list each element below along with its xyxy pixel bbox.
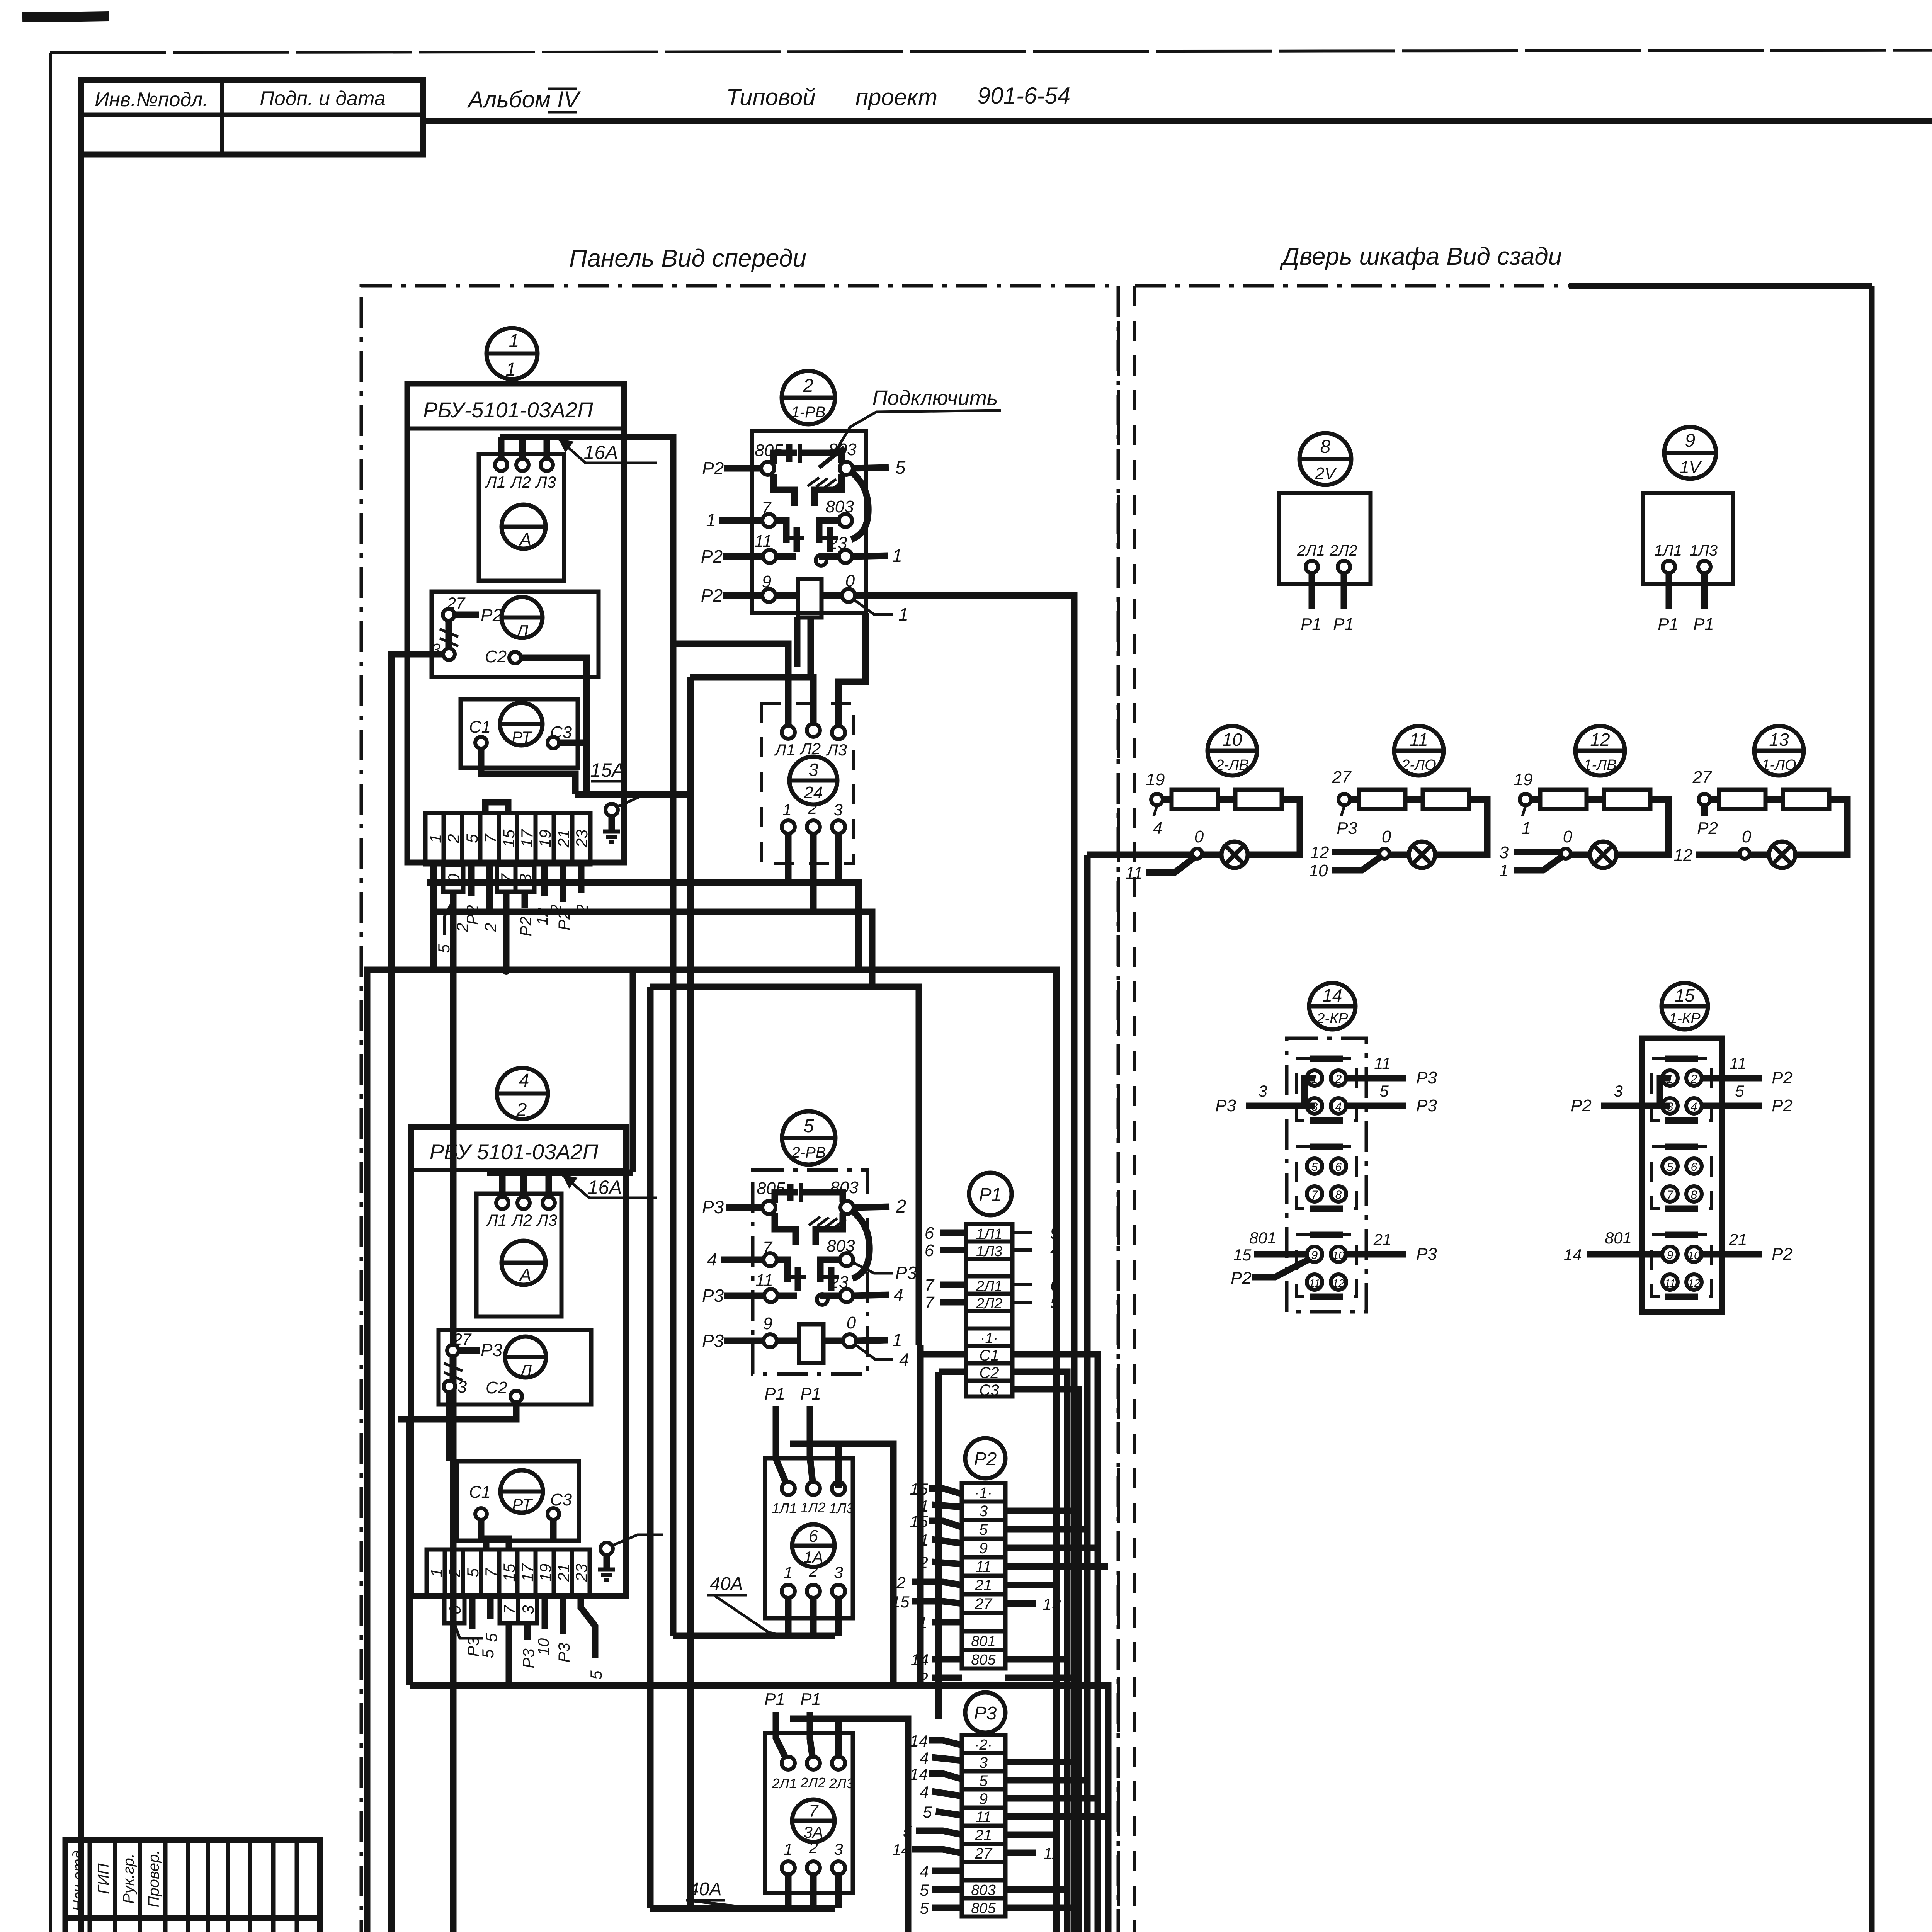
- svg-text:Р3: Р3: [555, 1643, 573, 1662]
- svg-text:Дверь шкафа Вид сзади: Дверь шкафа Вид сзади: [1280, 242, 1562, 270]
- designator circle Р1: [969, 1173, 1012, 1215]
- svg-text:4: 4: [920, 1783, 929, 1801]
- wire from pin 0 of 1-РВ to riser: [855, 595, 1074, 1932]
- svg-text:5: 5: [1311, 1161, 1318, 1173]
- svg-text:3: 3: [979, 1503, 988, 1520]
- sheet left edge: [49, 53, 52, 1932]
- svg-text:5: 5: [979, 1772, 988, 1789]
- svg-text:РБУ 5101-03А2П: РБУ 5101-03А2П: [430, 1139, 599, 1164]
- cabinet door edge: [1869, 286, 1875, 1932]
- svg-text:Р2: Р2: [974, 1449, 997, 1469]
- svg-text:10: 10: [1688, 1249, 1700, 1261]
- svg-text:Панель Вид спереди: Панель Вид спереди: [569, 244, 806, 272]
- svg-text:27: 27: [1692, 768, 1712, 787]
- svg-text:11: 11: [755, 1271, 773, 1290]
- riser from strip X1 cell 1: [430, 864, 437, 970]
- designator circle Р3: [965, 1692, 1005, 1733]
- svg-text:3: 3: [834, 1563, 843, 1582]
- svg-text:Л3: Л3: [535, 473, 556, 491]
- wires feeding block 3: [673, 644, 788, 726]
- svg-text:Л1: Л1: [774, 741, 795, 759]
- svg-text:1Л1: 1Л1: [976, 1226, 1002, 1242]
- svg-text:С1: С1: [979, 1347, 999, 1364]
- svg-text:6: 6: [925, 1241, 934, 1260]
- svg-text:4: 4: [1335, 1100, 1342, 1113]
- svg-text:3: 3: [519, 1605, 537, 1614]
- wire stub from 1Л3: [835, 1444, 842, 1488]
- ammeter box A1: [479, 454, 564, 581]
- svg-text:7: 7: [482, 1568, 500, 1577]
- svg-text:10: 10: [1222, 730, 1242, 750]
- svg-text:17: 17: [518, 829, 536, 847]
- svg-text:3: 3: [1499, 843, 1509, 862]
- svg-text:11: 11: [1309, 1277, 1320, 1289]
- contact row 7/803 of 1-РВ: [706, 497, 854, 566]
- svg-text:Л1: Л1: [486, 1211, 507, 1229]
- svg-text:Р3: Р3: [895, 1263, 917, 1283]
- svg-text:1Л2: 1Л2: [801, 1500, 826, 1515]
- svg-text:С2: С2: [486, 1378, 507, 1397]
- long rail to right trunk: [410, 1685, 1108, 1932]
- svg-text:Инв.№подл.: Инв.№подл.: [95, 88, 208, 111]
- svg-text:4: 4: [920, 1749, 929, 1767]
- svg-text:8: 8: [1335, 1189, 1342, 1201]
- svg-text:Р1: Р1: [1693, 615, 1714, 634]
- designator circle 1/1: [486, 328, 537, 380]
- ammeter box A2: [476, 1194, 561, 1316]
- terminal group 15-1: [1652, 1059, 1712, 1121]
- svg-text:1Л3: 1Л3: [976, 1243, 1002, 1260]
- wire riser from sub-cell 3 of X2: [506, 1623, 512, 1685]
- svg-text:14: 14: [1564, 1246, 1582, 1264]
- svg-text:14: 14: [910, 1765, 928, 1783]
- svg-text:Р2: Р2: [517, 917, 535, 936]
- svg-text:15: 15: [891, 1593, 910, 1611]
- right panel dash-dot border: [1135, 284, 1615, 288]
- svg-text:Р3: Р3: [519, 1648, 537, 1668]
- svg-text:10: 10: [1332, 1249, 1345, 1261]
- svg-text:2Л2: 2Л2: [800, 1775, 826, 1791]
- svg-text:4: 4: [1050, 1241, 1060, 1260]
- strip Р3 right wires to trunk: [1005, 1762, 1108, 1908]
- svg-text:7: 7: [925, 1293, 935, 1312]
- svg-text:1: 1: [892, 1330, 902, 1350]
- svg-text:23: 23: [573, 830, 591, 848]
- svg-text:Л: Л: [519, 1361, 532, 1380]
- svg-text:Р3: Р3: [1215, 1096, 1236, 1115]
- svg-text:5: 5: [920, 1881, 929, 1899]
- wire riser from sub-cell 3: [503, 892, 510, 970]
- svg-text:1-ЛВ: 1-ЛВ: [1583, 757, 1616, 773]
- strip Р2 left pigtails: [891, 1480, 962, 1687]
- svg-text:Р1: Р1: [764, 1690, 785, 1709]
- label 40А leader 1: [707, 1574, 787, 1636]
- svg-text:1: 1: [1522, 819, 1531, 838]
- svg-text:Р2: Р2: [1697, 819, 1718, 838]
- svg-text:2Л2: 2Л2: [976, 1296, 1002, 1312]
- wire riser from cell 0: [450, 892, 457, 1932]
- svg-text:4: 4: [1153, 819, 1162, 838]
- svg-text:С2: С2: [485, 647, 507, 666]
- svg-text:21: 21: [1373, 1230, 1392, 1248]
- svg-text:1Л3: 1Л3: [829, 1500, 854, 1516]
- svg-text:2: 2: [1335, 1073, 1342, 1085]
- breaker unit box РБУ 5101-03А2П (2): [411, 1127, 626, 1596]
- svg-text:6: 6: [809, 1527, 818, 1546]
- wire from pin 3 to left riser: [391, 654, 443, 1932]
- designator circle 2/1-РВ: [782, 371, 835, 424]
- sheet top edge: [50, 50, 1932, 53]
- svg-text:7: 7: [1311, 1189, 1318, 1201]
- wire stubs to meter A1: [498, 437, 505, 465]
- svg-text:Р3: Р3: [1416, 1245, 1437, 1264]
- pigtail labels under strip X1: [435, 864, 500, 953]
- contactor box Л1: [431, 592, 599, 677]
- wire stubs to meter A2: [499, 1173, 506, 1198]
- label 15А: [590, 759, 625, 781]
- wire coil drops from 1-РВ: [794, 617, 801, 667]
- svg-text:Р1: Р1: [800, 1384, 821, 1403]
- svg-text:С2: С2: [979, 1364, 999, 1381]
- svg-text:Р3: Р3: [1416, 1096, 1437, 1115]
- svg-text:2Л1: 2Л1: [772, 1776, 797, 1791]
- svg-text:1: 1: [427, 1568, 446, 1577]
- Р1 feed labels for breaker 6: [764, 1384, 821, 1488]
- svg-text:Л: Л: [515, 622, 529, 641]
- svg-text:Р1: Р1: [800, 1690, 821, 1709]
- svg-text:1Л1: 1Л1: [772, 1500, 797, 1516]
- svg-text:А: А: [519, 1265, 532, 1285]
- svg-text:Рук.гр.: Рук.гр.: [120, 1854, 137, 1904]
- strip Р2 right wires to trunk: [1005, 1511, 1108, 1678]
- svg-text:Провер.: Провер.: [145, 1850, 162, 1907]
- jumper bracket over strip X1: [485, 802, 508, 813]
- label 16А with leader: [558, 439, 657, 463]
- svg-text:2: 2: [918, 1553, 928, 1571]
- svg-text:19: 19: [1146, 770, 1165, 789]
- svg-text:Типовой: Типовой: [726, 84, 815, 110]
- svg-text:14: 14: [1322, 985, 1342, 1005]
- svg-text:2: 2: [481, 923, 500, 932]
- svg-text:Р3: Р3: [1416, 1068, 1437, 1087]
- wire C2-1 to feeder: [521, 658, 587, 794]
- svg-text:5: 5: [1735, 1082, 1744, 1100]
- svg-text:11: 11: [1730, 1054, 1747, 1072]
- wire С1 of Р1: [920, 1345, 966, 1354]
- svg-text:Р2: Р2: [1772, 1096, 1793, 1115]
- terminal group 14-2: [1296, 1147, 1356, 1209]
- svg-text:7: 7: [1667, 1189, 1674, 1201]
- svg-text:2: 2: [803, 376, 814, 396]
- svg-text:15: 15: [910, 1480, 928, 1498]
- svg-text:Р2: Р2: [701, 585, 723, 605]
- wire bracket feeding breaker 7: [790, 1719, 908, 1932]
- svg-text:3: 3: [834, 1840, 843, 1858]
- svg-text:12: 12: [1332, 1277, 1345, 1289]
- svg-text:2: 2: [808, 1838, 818, 1857]
- svg-text:9: 9: [979, 1791, 988, 1808]
- svg-text:27: 27: [975, 1845, 993, 1862]
- svg-text:2V: 2V: [1315, 464, 1337, 483]
- voltmeter 8 (2V): [1279, 433, 1371, 634]
- terminal strip X1: [425, 813, 591, 864]
- svg-text:5: 5: [923, 1803, 932, 1821]
- svg-text:1-РВ: 1-РВ: [791, 404, 826, 421]
- svg-text:19: 19: [1514, 770, 1533, 789]
- wire C2-2 elbow: [398, 1402, 516, 1419]
- breaker unit box РБУ-5101-03А2П (1): [407, 384, 624, 862]
- rail A2: [434, 912, 872, 987]
- svg-text:4: 4: [893, 1285, 903, 1305]
- svg-text:9: 9: [763, 1314, 772, 1333]
- svg-text:2: 2: [444, 834, 463, 843]
- svg-text:5: 5: [464, 1568, 482, 1577]
- svg-text:0: 0: [1742, 827, 1752, 846]
- svg-text:·1·: ·1·: [975, 1485, 992, 1501]
- svg-text:1Л3: 1Л3: [1690, 542, 1718, 559]
- designator circle 5/2-РВ: [782, 1111, 835, 1165]
- svg-text:3: 3: [808, 760, 818, 780]
- svg-text:16А: 16А: [584, 442, 618, 463]
- lamp circuit 13 (1-ЛО): [1674, 726, 1847, 868]
- svg-text:17: 17: [518, 1563, 536, 1582]
- svg-text:Л1: Л1: [485, 473, 506, 491]
- svg-text:6: 6: [1335, 1161, 1342, 1173]
- strip Р3 left pigtails: [892, 1732, 962, 1917]
- svg-text:Л3: Л3: [536, 1211, 557, 1229]
- contact row 805/803 of 1-РВ: [702, 440, 906, 506]
- svg-text:5: 5: [1050, 1293, 1060, 1312]
- svg-text:1-КР: 1-КР: [1669, 1010, 1701, 1027]
- svg-text:15: 15: [500, 829, 518, 847]
- svg-text:0: 0: [1563, 827, 1573, 846]
- sub-cell 7 3 under strip X1: [497, 865, 534, 892]
- svg-text:Р2: Р2: [701, 546, 723, 566]
- svg-text:2-ЛВ: 2-ЛВ: [1215, 757, 1248, 773]
- svg-text:14: 14: [911, 1651, 929, 1669]
- pigtails under strip X2: [464, 1596, 500, 1657]
- coil row 9/0 of 1-РВ: [701, 571, 908, 624]
- svg-text:11: 11: [1043, 1844, 1060, 1862]
- svg-text:Альбом IV: Альбом IV: [467, 87, 581, 112]
- svg-text:6: 6: [1050, 1276, 1060, 1295]
- strip Р1: [966, 1224, 1012, 1399]
- svg-text:1: 1: [426, 834, 444, 843]
- contact row 11/23 of 1-РВ: [701, 532, 902, 566]
- svg-text:9: 9: [1311, 1249, 1318, 1262]
- designator circle Р2: [965, 1438, 1005, 1478]
- svg-text:4: 4: [920, 1862, 929, 1881]
- jumper 1-3 of block 15: [1660, 1078, 1670, 1106]
- svg-text:21: 21: [554, 830, 573, 848]
- trunk riser 16A-2: [630, 970, 636, 1172]
- svg-text:2: 2: [808, 799, 817, 817]
- thermal relay box РТ1: [461, 699, 587, 768]
- svg-text:11: 11: [975, 1809, 992, 1826]
- svg-text:Р2: Р2: [1231, 1269, 1252, 1287]
- svg-text:РТ: РТ: [512, 728, 533, 746]
- relay box 1-РВ: [752, 431, 866, 613]
- svg-text:РБУ-5101-03А2П: РБУ-5101-03А2П: [423, 398, 593, 422]
- svg-text:ГИП: ГИП: [95, 1863, 112, 1894]
- svg-text:11: 11: [1410, 730, 1428, 750]
- svg-text:14: 14: [892, 1841, 910, 1859]
- svg-text:Р3: Р3: [481, 1340, 503, 1360]
- left rail to bottom trunk: [398, 1419, 410, 1685]
- strip Р2: [962, 1483, 1005, 1668]
- svg-text:5: 5: [1379, 1082, 1389, 1100]
- wires of terminal group 14-3: [1231, 1229, 1437, 1287]
- ground terminal 2: [598, 1535, 663, 1580]
- svg-text:21: 21: [1729, 1230, 1747, 1248]
- svg-text:1Л1: 1Л1: [1654, 542, 1682, 559]
- svg-text:4: 4: [1691, 1100, 1697, 1113]
- svg-text:Р3: Р3: [702, 1197, 724, 1217]
- wire C1-1 to 15A feeder: [481, 748, 575, 794]
- svg-text:15: 15: [500, 1563, 518, 1582]
- rail C: [650, 987, 919, 1345]
- ground terminal 1: [603, 796, 665, 842]
- svg-text:5: 5: [895, 457, 906, 478]
- svg-text:7: 7: [481, 833, 499, 843]
- wire 15A feeder: [575, 791, 690, 798]
- svg-text:10: 10: [535, 1638, 552, 1656]
- svg-text:1: 1: [784, 1563, 793, 1582]
- svg-text:Р1: Р1: [1301, 615, 1321, 634]
- svg-text:27: 27: [1332, 768, 1352, 787]
- svg-text:11: 11: [1664, 1277, 1675, 1289]
- label Подключить with leader: [819, 386, 1001, 468]
- Р1 feed labels for breaker 7: [764, 1690, 821, 1763]
- wires of terminal group 14-1: [1215, 1054, 1437, 1115]
- svg-text:12: 12: [1310, 843, 1329, 862]
- svg-text:С1: С1: [469, 718, 491, 736]
- svg-text:Р1: Р1: [1658, 615, 1679, 634]
- rail under breaker 7: [650, 1905, 835, 1912]
- svg-text:15: 15: [1233, 1246, 1252, 1264]
- svg-text:Р1: Р1: [764, 1384, 785, 1403]
- svg-text:Р2: Р2: [481, 605, 502, 625]
- svg-text:15: 15: [910, 1512, 928, 1531]
- svg-text:15А: 15А: [590, 759, 625, 781]
- svg-text:1: 1: [892, 546, 902, 566]
- svg-text:3: 3: [833, 801, 842, 819]
- terminal group 15-2: [1652, 1147, 1712, 1209]
- lamp circuit 11 (2-ЛО): [1309, 726, 1487, 880]
- wire 16A feeder 1: [500, 437, 673, 1636]
- svg-text:Р3: Р3: [1337, 819, 1357, 838]
- svg-text:3: 3: [457, 1378, 467, 1396]
- terminal group 15-3: [1652, 1235, 1712, 1297]
- svg-text:21: 21: [554, 1564, 573, 1582]
- svg-text:1: 1: [784, 1840, 793, 1858]
- svg-text:2Л3: 2Л3: [829, 1776, 854, 1791]
- svg-text:2: 2: [1690, 1073, 1697, 1085]
- svg-text:19: 19: [536, 1564, 554, 1582]
- svg-text:16А: 16А: [588, 1177, 622, 1198]
- curved jumper 803-803 of 1-РВ: [851, 472, 868, 539]
- mid separator dashed lines: [1117, 286, 1120, 1932]
- jumper bracket over strip X2: [486, 1539, 509, 1549]
- svg-text:Нач.отд.: Нач.отд.: [70, 1846, 87, 1912]
- svg-text:Р2: Р2: [1571, 1096, 1592, 1115]
- svg-text:23: 23: [572, 1564, 590, 1582]
- svg-text:11: 11: [1125, 864, 1143, 883]
- svg-text:5: 5: [804, 1116, 814, 1136]
- trunk riser B3: [687, 677, 694, 1908]
- sub-cell 0 under strip X2: [444, 1596, 497, 1658]
- svg-text:801: 801: [1249, 1229, 1276, 1247]
- svg-text:4: 4: [519, 1070, 529, 1091]
- svg-text:803: 803: [971, 1882, 995, 1898]
- terminal group 14-3: [1296, 1235, 1356, 1297]
- strip Р3: [962, 1735, 1005, 1917]
- svg-text:Р2: Р2: [702, 458, 724, 478]
- svg-text:6: 6: [1691, 1161, 1697, 1173]
- svg-text:7: 7: [500, 1605, 519, 1614]
- strip Р1 left stubs: [925, 1224, 966, 1312]
- svg-text:5: 5: [1667, 1161, 1673, 1173]
- svg-text:2: 2: [808, 1562, 818, 1580]
- wire С2 right of Р1: [1012, 1372, 1067, 1932]
- left panel dash-dot border: [361, 286, 1118, 1932]
- svg-text:14: 14: [910, 1732, 928, 1750]
- svg-text:2: 2: [516, 1100, 527, 1120]
- strip Р1 right stubs: [1012, 1224, 1060, 1312]
- svg-text:19: 19: [536, 830, 554, 848]
- svg-text:1-ЛО: 1-ЛО: [1762, 757, 1796, 773]
- wire riser from lamp 10: [1084, 855, 1091, 1932]
- svg-text:5: 5: [587, 1670, 605, 1680]
- svg-text:9: 9: [1667, 1249, 1673, 1262]
- svg-text:7: 7: [809, 1802, 819, 1821]
- designator circle 4/2: [497, 1068, 548, 1120]
- svg-text:3: 3: [1614, 1082, 1622, 1100]
- inv table box: [81, 80, 423, 155]
- svg-text:2: 2: [896, 1196, 906, 1217]
- svg-text:12: 12: [1688, 1277, 1700, 1289]
- wire left riser to bus: [367, 970, 434, 1932]
- svg-text:1: 1: [898, 604, 908, 624]
- svg-text:проект: проект: [855, 84, 937, 110]
- svg-text:0: 0: [847, 1313, 856, 1332]
- label 40А leader 2: [686, 1879, 768, 1908]
- svg-text:805: 805: [971, 1900, 996, 1917]
- svg-text:Л2: Л2: [510, 473, 531, 491]
- fuse box 3/24 dashed: [761, 703, 854, 864]
- svg-text:12: 12: [1590, 730, 1610, 750]
- svg-text:1: 1: [506, 359, 516, 380]
- svg-text:С1: С1: [469, 1483, 491, 1502]
- svg-text:0: 0: [1194, 827, 1204, 846]
- svg-text:2: 2: [446, 1568, 464, 1577]
- svg-text:Р2: Р2: [1772, 1245, 1793, 1264]
- svg-text:2-РВ: 2-РВ: [791, 1144, 826, 1161]
- svg-text:6: 6: [925, 1224, 934, 1243]
- svg-text:1: 1: [509, 331, 519, 351]
- svg-text:0: 0: [1382, 827, 1391, 846]
- svg-text:11: 11: [1374, 1054, 1391, 1072]
- svg-text:9: 9: [1050, 1224, 1060, 1243]
- terminal group 14-1: [1296, 1059, 1356, 1121]
- svg-text:2Л1: 2Л1: [1297, 542, 1325, 559]
- svg-text:5: 5: [920, 1899, 929, 1917]
- contactor box Л2: [439, 1330, 591, 1405]
- svg-text:3: 3: [979, 1754, 988, 1771]
- svg-text:901-6-54: 901-6-54: [978, 83, 1070, 109]
- svg-text:Подп. и дата: Подп. и дата: [260, 87, 386, 110]
- relay box 2-РВ: [753, 1170, 867, 1374]
